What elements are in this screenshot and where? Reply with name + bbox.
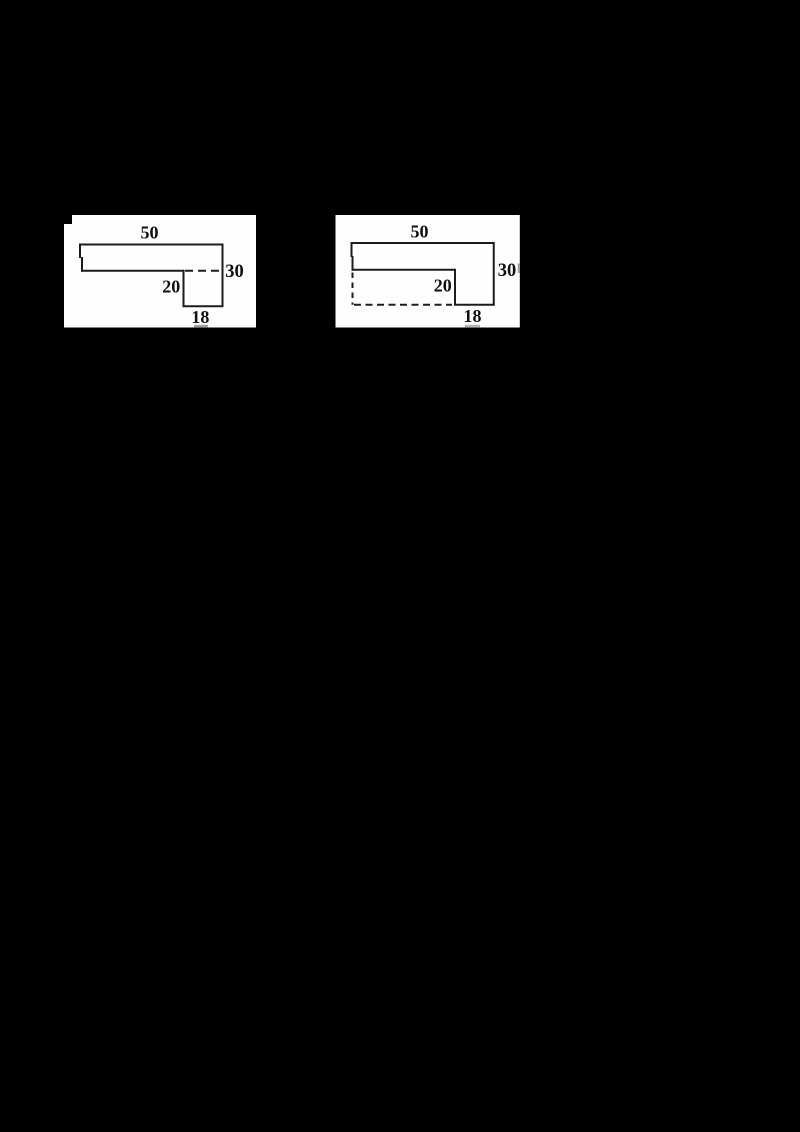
svg-text:18: 18 [464, 306, 482, 326]
figure 1: small square bottom edge [183, 305, 224, 307]
black notch in panel top-left corner [64, 215, 72, 224]
figure 2: inner vertical edge [454, 269, 456, 305]
figure 2: big rectangle top edge [352, 242, 494, 244]
svg-text:18: 18 [191, 307, 209, 327]
figure 1 cropped text smudge at panel bottom [194, 325, 208, 328]
figure 1: long rectangle bottom edge [81, 270, 184, 272]
figure 2: inner horizontal edge [352, 269, 456, 271]
figure 2: right edge [493, 242, 495, 305]
figure 1: left edge with scan jog [80, 244, 82, 272]
svg-text:30: 30 [498, 261, 517, 281]
svg-text:20: 20 [162, 276, 180, 296]
svg-text:20: 20 [434, 276, 452, 296]
svg-text:30: 30 [225, 262, 244, 282]
figure 2 cropped glyph fragment at panel right edge [518, 264, 520, 274]
figure 1: long rectangle top edge [80, 244, 223, 246]
figure 2 cropped text smudge at panel bottom [465, 325, 480, 328]
white scan panel left [64, 215, 256, 328]
svg-text:50: 50 [411, 222, 429, 242]
figure 2: bottom dashed edge [354, 304, 452, 306]
figure 2: left edge solid part with scan jog [352, 242, 353, 271]
white scan panel right [336, 215, 520, 328]
figure 1: small square left edge [183, 270, 185, 307]
figure 1: dashed hidden edge [185, 270, 221, 272]
svg-text:50: 50 [141, 223, 159, 243]
figure 2: bottom solid edge [454, 304, 495, 306]
figure 1: right edge [222, 244, 224, 307]
figure 2: left edge dashed part [352, 273, 354, 305]
